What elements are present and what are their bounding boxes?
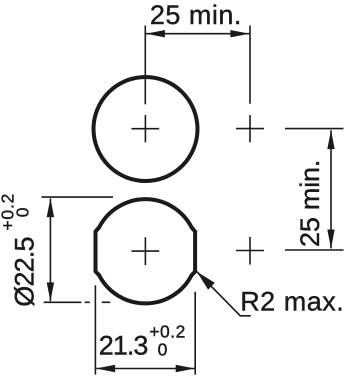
dimension line, top (25 min. horizontal) bbox=[146, 33, 249, 35]
arrowhead bottom of left dimension bbox=[47, 282, 54, 301]
dimension line, left (diameter 22.5 vertical) bbox=[49, 199, 51, 302]
svg-text:25 min.: 25 min. bbox=[150, 0, 242, 30]
extension line from right cross (vertical, top dim) bbox=[249, 26, 251, 104]
svg-text:+0.2: +0.2 bbox=[149, 321, 186, 341]
svg-text:0: 0 bbox=[158, 339, 168, 359]
center cross, bottom right position bbox=[236, 237, 264, 265]
center cross, top right position bbox=[236, 115, 264, 142]
arrowhead top of right dimension bbox=[327, 130, 334, 149]
center cross of hole H2 bbox=[132, 237, 160, 265]
extension line right bottom (horizontal) bbox=[285, 249, 344, 251]
arrowhead top of left dimension bbox=[47, 198, 54, 217]
svg-text:Ø22.5: Ø22.5 bbox=[10, 237, 40, 307]
arrowhead left of bottom dimension bbox=[96, 365, 115, 373]
svg-text:R2 max.: R2 max. bbox=[240, 287, 344, 317]
extension line for H2 bottom tangent (horizontal, two segments) bbox=[44, 301, 82, 303]
extension line right top (horizontal) bbox=[285, 128, 344, 130]
extension line from H2 left flat (vertical, bottom dim) bbox=[94, 285, 96, 374]
hole H1 (round mounting hole, top) bbox=[94, 77, 198, 181]
leader arrowhead (pointing at H2 corner) bbox=[197, 271, 215, 289]
svg-text:21.3: 21.3 bbox=[99, 331, 148, 361]
arrowhead left of top dimension bbox=[146, 30, 165, 37]
arrowhead right of top dimension bbox=[230, 30, 249, 37]
extension line from H2 right flat (vertical, bottom dim) bbox=[194, 292, 196, 375]
center cross of hole H1 bbox=[132, 115, 160, 142]
leader line to corner radius bbox=[197, 271, 251, 315]
extension line from H1 center (vertical, top dim) bbox=[144, 26, 146, 105]
svg-text:25 min.: 25 min. bbox=[295, 160, 325, 247]
extension line for H2 top tangent (horizontal) bbox=[42, 196, 114, 198]
svg-text:0: 0 bbox=[12, 207, 32, 217]
dimension line, right (25 min. vertical) bbox=[330, 130, 332, 248]
arrowhead bottom of right dimension bbox=[327, 230, 334, 249]
arrowhead right of bottom dimension bbox=[176, 365, 195, 373]
hole H2 (double-flat mounting hole, bottom) bbox=[96, 199, 196, 303]
dimension line, bottom (21.3 horizontal) bbox=[96, 368, 194, 370]
